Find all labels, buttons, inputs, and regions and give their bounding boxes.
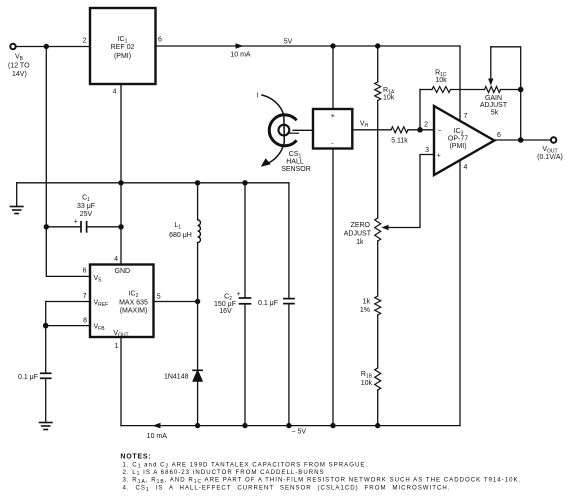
svg-text:1%: 1% bbox=[360, 307, 370, 314]
svg-text:6: 6 bbox=[158, 37, 162, 44]
capacitor 0.1uF right bbox=[284, 183, 294, 426]
svg-text:4: 4 bbox=[464, 164, 468, 171]
capacitor C2 bbox=[240, 183, 251, 426]
svg-text:4. CS1 IS A HALL-EFFECT CURREN: 4. CS1 IS A HALL-EFFECT CURRENT SENSOR (… bbox=[123, 485, 451, 493]
svg-text:10 mA: 10 mA bbox=[147, 433, 168, 440]
svg-text:+: + bbox=[236, 291, 240, 298]
wire R1A to zero pot bbox=[377, 101, 379, 219]
svg-text:(12 TO: (12 TO bbox=[8, 63, 30, 70]
wire op-amp pin 4 to -5V rail bbox=[459, 160, 461, 426]
resistor 1k 1% bbox=[375, 296, 381, 315]
node -5V L1 bbox=[195, 423, 200, 428]
toroid core CS1 bbox=[269, 115, 313, 146]
svg-text:+: + bbox=[74, 219, 78, 226]
svg-text:1: 1 bbox=[115, 343, 119, 350]
wire feedback top left segment bbox=[420, 89, 432, 91]
node C1 top junction bbox=[44, 224, 49, 229]
svg-text:(0.1V/A): (0.1V/A) bbox=[537, 154, 563, 161]
svg-text:14V): 14V) bbox=[12, 71, 27, 78]
node -5V hall bbox=[330, 423, 335, 428]
svg-text:680 μH: 680 μH bbox=[169, 232, 192, 239]
node 5V R1A branch bbox=[375, 43, 380, 48]
IC2 U2 box bbox=[90, 265, 154, 338]
wire R1C to gain pot bbox=[451, 89, 485, 91]
wire IC2 VREF left bbox=[46, 301, 90, 303]
node gnd L1 bbox=[195, 180, 200, 185]
svg-text:ADJUST: ADJUST bbox=[344, 231, 372, 238]
svg-text:−: − bbox=[438, 127, 442, 134]
svg-text:8: 8 bbox=[83, 317, 87, 324]
inductor L1 bbox=[198, 220, 201, 243]
hall sensor box CS1 bbox=[313, 109, 352, 149]
terminal VOUT bbox=[551, 137, 556, 142]
svg-text:6: 6 bbox=[497, 132, 501, 139]
wire op-amp pin 3 to zero wiper bbox=[386, 155, 434, 228]
svg-text:HALL: HALL bbox=[286, 159, 304, 166]
svg-text:ZERO: ZERO bbox=[351, 222, 371, 229]
resistor 5.11k bbox=[391, 127, 408, 133]
node -5V 0.1uF bbox=[286, 423, 291, 428]
wire 5V to R1A bbox=[377, 46, 379, 82]
svg-text:NOTES:: NOTES: bbox=[120, 453, 151, 460]
wire hall sensor supply bbox=[332, 46, 334, 109]
svg-text:6: 6 bbox=[83, 268, 87, 275]
svg-text:1k: 1k bbox=[356, 239, 364, 246]
arrowhead 10mA top rail right bbox=[236, 43, 244, 49]
svg-text:2: 2 bbox=[424, 122, 428, 129]
svg-text:10k: 10k bbox=[361, 380, 373, 387]
svg-text:150 μF: 150 μF bbox=[214, 301, 236, 308]
svg-text:(PMI): (PMI) bbox=[114, 53, 131, 60]
svg-text:OP-77: OP-77 bbox=[448, 136, 468, 143]
svg-text:7: 7 bbox=[464, 113, 468, 120]
node 5V hall branch bbox=[330, 43, 335, 48]
svg-text:5: 5 bbox=[157, 294, 161, 301]
svg-text:(PMI): (PMI) bbox=[449, 143, 466, 150]
wire VB input to IC1 pin 2 bbox=[16, 46, 90, 48]
svg-text:0.1 μF: 0.1 μF bbox=[258, 300, 278, 307]
svg-text:4: 4 bbox=[113, 89, 117, 96]
svg-text:10 mA: 10 mA bbox=[230, 52, 251, 59]
svg-text:5.11k: 5.11k bbox=[391, 138, 408, 145]
svg-text:SENSOR: SENSOR bbox=[281, 166, 311, 173]
node inverting input bbox=[417, 127, 423, 133]
svg-text:25V: 25V bbox=[80, 211, 93, 218]
svg-text:7: 7 bbox=[83, 293, 87, 300]
wire IC2 pin5 bbox=[154, 301, 198, 303]
wire hall sensor minus to -5V rail bbox=[332, 149, 334, 426]
wire pin5 node to diode bbox=[197, 302, 199, 371]
capacitor 0.1uF left bbox=[41, 373, 51, 422]
svg-text:10k: 10k bbox=[383, 95, 395, 102]
svg-text:+: + bbox=[331, 111, 336, 120]
node C1 right bbox=[118, 224, 123, 229]
diode 1N4148 bbox=[193, 370, 202, 425]
wire VH output bbox=[352, 129, 391, 131]
svg-text:0.1 μF: 0.1 μF bbox=[18, 374, 38, 381]
svg-text:3: 3 bbox=[425, 147, 429, 154]
terminal VB bbox=[10, 44, 15, 49]
node feedback right top bbox=[518, 87, 524, 93]
svg-text:5V: 5V bbox=[284, 39, 293, 46]
wire op-amp pin 7 supply bbox=[459, 46, 461, 121]
resistor R1A bbox=[375, 82, 381, 101]
svg-text:ADJUST: ADJUST bbox=[480, 102, 508, 109]
wire gain wiper loop bbox=[491, 47, 521, 90]
svg-text:GAIN: GAIN bbox=[485, 95, 502, 102]
potentiometer zero adjust 1k bbox=[375, 218, 381, 241]
wire 5.11k to op-amp pin 2 bbox=[408, 129, 434, 131]
wire VB vertical down to C1 node bbox=[45, 47, 47, 227]
wire IC2 pin1 VOUT down bbox=[120, 337, 122, 426]
ground rail bbox=[17, 182, 289, 184]
wire IC1 pin4 to IC2 GND bbox=[120, 84, 122, 265]
svg-text:− 5V: − 5V bbox=[292, 429, 307, 436]
svg-text:+: + bbox=[437, 152, 441, 159]
wire gain pot to feedback node bbox=[501, 89, 521, 91]
capacitor C1 bbox=[46, 222, 121, 232]
svg-text:REF 02: REF 02 bbox=[111, 44, 135, 51]
resistor R1B bbox=[375, 368, 381, 390]
svg-text:5k: 5k bbox=[491, 110, 499, 117]
wire R1B to -5V rail bbox=[377, 390, 379, 426]
wire gnd to L1 bbox=[197, 183, 199, 220]
wire VB line down to IC2 VS bbox=[46, 227, 90, 277]
arrowhead 10mA left bbox=[153, 423, 161, 429]
svg-text:MAX 635: MAX 635 bbox=[119, 300, 148, 307]
wire IC2 VFB left bbox=[46, 325, 90, 327]
node -5V R1B bbox=[375, 423, 380, 428]
wire 5V rail bbox=[156, 45, 461, 47]
resistor R1C bbox=[432, 87, 451, 93]
ground symbol left bottom bbox=[40, 423, 52, 430]
node VB junction bbox=[44, 44, 49, 49]
svg-text:10k: 10k bbox=[435, 77, 447, 84]
node gnd IC pin4 bbox=[118, 180, 123, 185]
node gnd C2 bbox=[242, 180, 247, 185]
rail -5V bbox=[121, 425, 460, 427]
arrowhead gain wiper bbox=[488, 79, 493, 86]
node pin5 L1 bbox=[195, 299, 200, 304]
svg-text:33 μF: 33 μF bbox=[77, 203, 95, 210]
node -5V C2 bbox=[242, 423, 247, 428]
wire L1 to pin5 node bbox=[197, 243, 199, 302]
svg-text:2: 2 bbox=[83, 38, 87, 45]
arrowhead zero wiper bbox=[382, 225, 389, 230]
svg-text:16V: 16V bbox=[219, 308, 232, 315]
wire gain wiper arrow stem bbox=[490, 47, 492, 80]
IC1 U1 box bbox=[90, 8, 156, 84]
node VFB bbox=[43, 323, 49, 329]
ground symbol main bbox=[11, 183, 23, 214]
svg-text:GND: GND bbox=[115, 268, 131, 275]
wire feedback right vertical bbox=[520, 90, 522, 141]
wire VREF-VFB vertical bbox=[45, 302, 47, 374]
wire 1k to R1B bbox=[377, 315, 379, 368]
svg-text:1N4148: 1N4148 bbox=[164, 373, 189, 380]
node output feedback bbox=[518, 137, 524, 143]
svg-text:(MAXIM): (MAXIM) bbox=[120, 308, 148, 315]
wire op-amp output bbox=[494, 139, 551, 141]
svg-text:I: I bbox=[257, 93, 259, 100]
wire feedback left vertical bbox=[419, 90, 421, 130]
wire zero pot to 1k bbox=[377, 241, 379, 296]
svg-text:4: 4 bbox=[114, 256, 118, 263]
op-amp U3 triangle bbox=[434, 106, 494, 175]
svg-text:1k: 1k bbox=[363, 299, 371, 306]
potentiometer gain adjust 5k bbox=[485, 87, 501, 93]
arrow current I bbox=[261, 95, 285, 167]
